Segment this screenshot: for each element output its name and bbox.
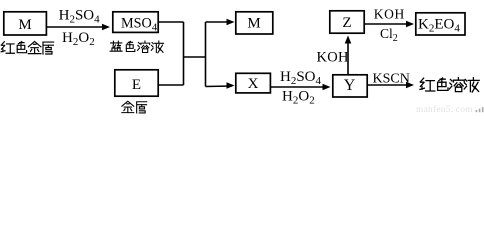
svg-text:Y: Y	[344, 77, 356, 94]
arrow to X box	[206, 85, 233, 88]
box K2EO4	[416, 13, 465, 35]
arrow Y to red solution	[368, 84, 412, 86]
svg-text:manfen5. com: manfen5. com	[416, 104, 473, 114]
svg-text:KOH: KOH	[374, 6, 405, 21]
label 红色金属	[1, 42, 54, 54]
svg-text:KOH: KOH	[317, 50, 350, 66]
wire E to junction	[159, 84, 184, 86]
arrow Y up to Z	[347, 38, 349, 74]
svg-text:M: M	[18, 17, 31, 33]
box Z	[330, 11, 364, 33]
svg-text:H2SO4: H2SO4	[280, 69, 322, 87]
label 蓝色溶液	[110, 41, 163, 53]
box MSO4 (blue solution)	[113, 12, 158, 33]
svg-text:KSCN: KSCN	[373, 71, 410, 86]
watermark dark ticks	[476, 107, 484, 112]
arrow to M box	[206, 21, 233, 23]
label 红色溶液	[420, 78, 479, 92]
svg-text:X: X	[248, 76, 259, 92]
watermark manfen5.com	[416, 104, 473, 115]
box M (second)	[236, 12, 273, 34]
box E (metal)	[115, 70, 158, 96]
wire MSO4 to junction	[159, 21, 184, 23]
wire vertical joiner	[183, 22, 185, 85]
svg-text:Z: Z	[342, 15, 351, 31]
wire crossbar	[184, 56, 206, 58]
svg-text:M: M	[247, 16, 260, 32]
wire branch vertical	[205, 22, 207, 87]
svg-text:E: E	[132, 77, 141, 93]
box Y	[333, 75, 367, 97]
box X	[236, 73, 271, 93]
label 金属	[122, 101, 147, 113]
svg-text:K2EO4: K2EO4	[418, 17, 460, 35]
box M (red metal)	[4, 12, 47, 35]
arrow X to Y	[271, 86, 328, 88]
arrow Z to K2EO4	[365, 23, 412, 25]
arrow M to MSO4	[47, 26, 108, 28]
svg-text:H2SO4: H2SO4	[59, 8, 101, 26]
